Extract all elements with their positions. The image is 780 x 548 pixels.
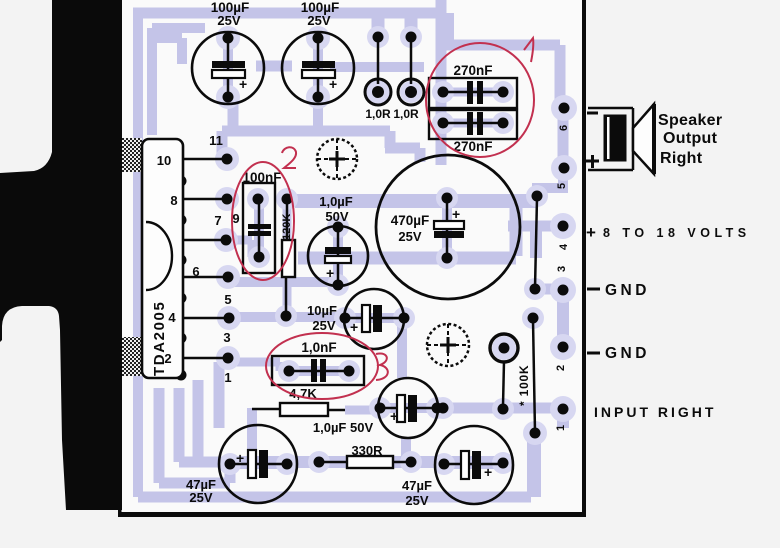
svg-text:GND: GND [605,282,650,299]
wire lead C2 [317,38,320,97]
svg-text:+: + [350,319,358,335]
wire inner L horizontal [152,23,205,33]
wire L5 pin1 down [214,362,225,428]
svg-text:+: + [390,408,398,424]
svg-text:3: 3 [556,266,568,272]
node pads [216,26,240,50]
wire Ca internal [333,229,343,283]
svg-text:+: + [452,206,460,222]
wire 270nF internal bottom [443,119,503,128]
svg-text:+: + [239,76,247,92]
speaker plus [586,155,599,168]
capacitor 270nF top box [429,78,517,108]
capacitor 100nF plates [248,224,271,229]
svg-text:1,0R: 1,0R [365,107,391,121]
wire lead 330R [319,461,411,464]
wire Cc internal [382,403,435,413]
svg-text:+: + [484,464,492,480]
board border left [118,378,122,515]
svg-text:470µF: 470µF [391,213,430,228]
label GND 1 [587,288,600,291]
capacitor 270nF bottom plates [467,112,473,135]
capacitor Ca 1.0uF circle [308,226,368,286]
svg-text:+: + [586,223,596,242]
svg-text:25V: 25V [307,13,330,28]
capacitor 270nF top plates [467,81,473,104]
wire pin6 to Ca [230,277,338,287]
wire lead Cc [380,407,437,410]
wire jumper A [535,198,537,288]
wire 4.7K left down [247,408,257,462]
capacitor 47uF left plates [248,450,256,478]
wire lead 100K [503,361,504,406]
svg-text:9: 9 [232,211,239,226]
red annotation circle 1 [426,43,534,157]
wire lead 47uL [230,463,287,466]
wire lead 1.0nF [289,370,349,373]
svg-text:10µF: 10µF [307,303,337,318]
wire lead 47uR [444,463,503,466]
capacitor 47uF left circle [219,425,297,503]
svg-text:1,0R: 1,0R [393,107,419,121]
wire pocket right [405,13,418,42]
svg-text:5: 5 [556,183,568,189]
wire left vertical [133,9,143,497]
wire lead R1 [377,37,380,84]
wire lead R2 [410,37,413,84]
resistor 100K ring [490,334,518,362]
wire bottom band [138,492,531,503]
wire pad5 to jumper [537,168,563,198]
pin line 7 [184,239,226,242]
svg-text:330R: 330R [351,443,383,458]
resistor 330R body [347,456,393,468]
svg-text:1: 1 [224,370,231,385]
svg-text:4: 4 [558,243,570,250]
svg-text:50V: 50V [325,209,348,224]
svg-text:1,0nF: 1,0nF [301,340,336,355]
svg-text:270nF: 270nF [453,139,492,154]
mounting hole 1 crosshair [317,139,357,179]
wire band E vertical [510,200,523,256]
svg-text:GND: GND [605,345,650,362]
wire 47uR internal [446,459,501,469]
wire pad6-pad5 [558,108,569,168]
svg-text:1: 1 [555,425,567,431]
svg-text:25V: 25V [398,229,421,244]
wire 4.7K to Cc [345,406,380,415]
svg-text:4: 4 [168,310,176,325]
hatched tab bottom [122,337,142,376]
speaker icon box [588,108,633,170]
wire lead C470 [446,198,449,258]
wire corner column [436,13,454,48]
svg-text:11: 11 [209,133,223,148]
svg-text:5: 5 [224,292,231,307]
wire R1R2 bridge [330,62,424,72]
DOTS (holes) [176,32,570,470]
wire lead 270nF b [443,122,503,125]
wire C2 bottom link [313,100,323,131]
wire C2 internal [313,42,323,94]
capacitor C1 100uF circle [192,32,264,104]
LEAD LINES (black) [184,37,537,464]
capacitor Cc plates [397,395,405,422]
svg-text:+: + [236,450,244,466]
label GND 2 [587,352,600,355]
capacitor 1.0nF plates [311,359,317,382]
svg-text:100nF: 100nF [242,170,281,185]
capacitor 47uF right plates [461,451,469,479]
TRACES (copper, lavender) [133,0,563,497]
capacitor Cb 10uF circle [344,289,404,349]
red annotation digit 2 [282,147,296,168]
wire pin11 link [217,131,228,158]
svg-text:6: 6 [558,125,570,131]
PCB board area [118,0,584,515]
wire L3 [179,388,230,462]
pin line 1 [184,357,228,360]
wire pin7 elbow [230,240,259,257]
svg-text:25V: 25V [405,493,428,508]
IC U1 key bump [146,222,172,290]
capacitor Ca plates [325,247,351,254]
capacitor Cc 1.0uF50V circle [378,378,438,438]
svg-text:* 100K: * 100K [517,365,531,407]
wire pad3 link [535,284,563,295]
capacitor C2 plates [302,61,335,68]
wire L2 [159,388,230,483]
svg-text:+: + [329,76,337,92]
capacitor 47uF right circle [435,426,513,504]
wire 120K column [283,199,292,316]
wire 270nF column [436,0,447,165]
pin line 11 [184,158,227,161]
wire band A [222,126,390,137]
PADS (lavender circles) [214,26,577,475]
red annotation circle 3 [266,333,378,399]
svg-text:47µF: 47µF [402,478,432,493]
svg-text:3: 3 [223,330,230,345]
wire staircase to pad6 [441,45,560,103]
svg-text:Output: Output [663,130,718,147]
wire lead 100nF [258,200,261,257]
resistor 120K body [282,240,295,277]
wire 1.0nF internal [289,366,349,376]
wire input band [440,403,563,414]
svg-text:2: 2 [555,365,567,371]
wire 100nF internal [254,200,264,257]
speaker coil [604,115,626,161]
COMPONENT OUTLINES [192,32,520,504]
svg-text:10: 10 [157,153,171,168]
capacitor Cb plates [362,305,370,332]
wire C1 bottom link [228,100,239,131]
speaker horn [633,104,654,174]
board border bottom [118,512,586,517]
svg-text:Speaker: Speaker [658,112,722,129]
wire band9 [298,252,516,265]
board border right [582,0,586,517]
wire pad4 link [508,221,563,232]
wire pin1 elbow [228,362,289,371]
svg-text:6: 6 [192,264,199,279]
RESISTOR BODIES [280,240,393,468]
PLATE SYMBOLS [212,61,492,480]
svg-text:120K: 120K [281,214,293,240]
wire pin5 row [233,312,345,322]
svg-text:25V: 25V [217,13,240,28]
svg-text:7: 7 [214,213,221,228]
wire C1-C2 bridge [256,61,292,72]
capacitor 270nF bottom box [429,110,517,139]
wire Cc to 330R [406,438,411,458]
wire below pad1 [557,409,569,428]
wire Cb internal [347,313,400,323]
wire corner to C1 [157,38,182,64]
capacitor C1 plates [212,61,245,68]
resistor 4.7K body [280,403,328,416]
wire top band [133,8,438,19]
svg-text:25V: 25V [312,318,335,333]
svg-text:270nF: 270nF [453,63,492,78]
hatched tab top [122,138,142,172]
wire lead Cb [345,317,404,320]
svg-text:1,0µF: 1,0µF [319,194,353,209]
wire pad3-pad2 [557,290,569,347]
resistor 1,0R right ring [398,79,424,105]
wire C470 internal [442,200,452,256]
heatsink silhouette [0,0,122,510]
capacitor C2 100uF circle [282,32,354,104]
pin line 8 [184,198,227,201]
wire bottom loop vertical [527,433,541,497]
capacitor C470 470uF circle [376,155,520,299]
svg-text:Right: Right [660,150,703,167]
resistor 1,0R left ring [365,79,391,105]
wire Cb right down [397,318,407,378]
pin line 6 [184,276,228,279]
wire 47uL internal [232,459,285,469]
capacitor 1.0nF box [272,356,364,385]
speaker minus [587,112,598,115]
wire lead C1 [227,38,230,97]
svg-text:25V: 25V [189,490,212,505]
wire jumper B [533,320,535,432]
wire pocket left [372,13,385,42]
mounting hole 2 crosshair [427,324,469,366]
svg-text:2: 2 [164,351,171,366]
wire inner L vertical [147,28,157,135]
red annotation circle 2 [232,162,294,280]
IC U1 TDA2005 package [142,139,183,378]
svg-text:INPUT RIGHT: INPUT RIGHT [594,404,716,420]
capacitor 100nF box [243,183,275,273]
red annotation digit 1 [524,38,533,62]
wire 270nF internal top [443,88,503,97]
wire pad4 elbow down [530,226,542,258]
wire lead 270nF a [443,91,503,94]
wire lead 120K [286,199,287,316]
red annotation digit 3 [376,353,388,380]
svg-text:8: 8 [170,193,177,208]
wire C1 internal [223,42,233,94]
wire lead 4.7K [252,409,345,410]
wire lead Ca [337,227,340,285]
svg-text:+: + [326,265,334,281]
wire L4 [193,380,204,464]
pin line 5 [184,317,229,320]
wire bottom row band [230,456,505,468]
wire band7 [295,194,537,208]
svg-text:8 TO 18 VOLTS: 8 TO 18 VOLTS [603,226,751,240]
svg-text:1,0µF 50V: 1,0µF 50V [313,420,374,435]
